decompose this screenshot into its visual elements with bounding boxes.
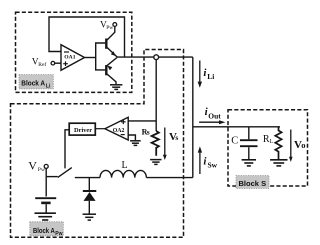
svg-text:Block S: Block S <box>239 179 267 188</box>
svg-text:Driver: Driver <box>74 127 92 134</box>
svg-text:Ref: Ref <box>38 61 46 68</box>
svg-text:L: L <box>270 139 274 145</box>
svg-text:Block A: Block A <box>21 79 45 88</box>
svg-text:s: s <box>175 133 178 142</box>
svg-text:Pw: Pw <box>106 25 113 31</box>
svg-text:s: s <box>147 128 150 137</box>
svg-text:OA1: OA1 <box>64 55 75 61</box>
svg-text:Li: Li <box>46 83 51 89</box>
svg-text:L: L <box>122 160 128 171</box>
svg-text:Pw: Pw <box>55 231 62 237</box>
svg-text:V: V <box>28 159 37 173</box>
svg-text:Sw: Sw <box>208 161 218 170</box>
svg-text:OA2: OA2 <box>113 128 125 134</box>
svg-text:C: C <box>231 135 238 146</box>
svg-text:Out: Out <box>208 111 221 120</box>
svg-text:Pw: Pw <box>38 167 45 173</box>
svg-text:o: o <box>301 140 305 150</box>
svg-text:Li: Li <box>207 72 214 81</box>
svg-text:Block A: Block A <box>33 226 55 235</box>
